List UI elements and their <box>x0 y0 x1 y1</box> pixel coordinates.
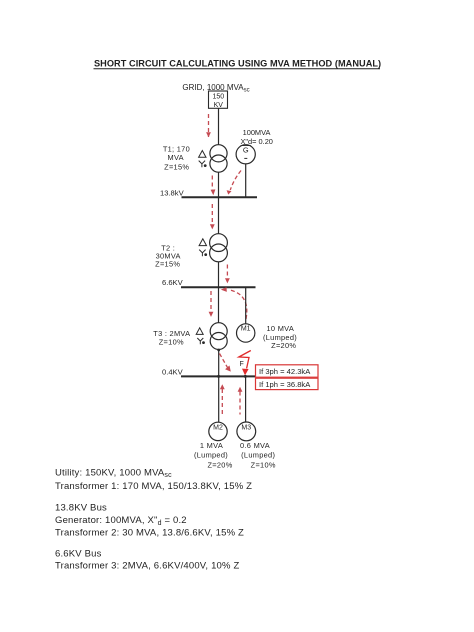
svg-text:6.6KV Bus: 6.6KV Bus <box>55 548 102 559</box>
T1 wye winding symbol <box>199 161 207 168</box>
svg-text:Z=10%: Z=10% <box>159 338 184 347</box>
T3 wye winding symbol <box>197 338 205 344</box>
fault result box If3ph <box>256 365 319 377</box>
svg-text:Z=15%: Z=15% <box>155 260 180 269</box>
svg-text:Transformer 3: 2MVA, 6.6KV/400: Transformer 3: 2MVA, 6.6KV/400V, 10% Z <box>55 561 239 572</box>
svg-text:13.8KV Bus: 13.8KV Bus <box>55 502 107 513</box>
T1 value label <box>163 144 190 171</box>
transformer T3 <box>210 323 227 350</box>
generator G <box>236 145 255 164</box>
T3 value label <box>153 329 190 347</box>
T2 delta winding symbol <box>199 239 206 246</box>
svg-text:Transformer 2: 30 MVA, 13.8/6.: Transformer 2: 30 MVA, 13.8/6.6KV, 15% Z <box>55 528 244 539</box>
svg-text:MVA: MVA <box>168 153 184 162</box>
junction fault node <box>244 375 247 378</box>
junction T3 bottom <box>217 349 220 352</box>
T3 delta winding symbol <box>196 328 203 335</box>
svg-text:13.8kV: 13.8kV <box>160 189 185 198</box>
svg-text:150: 150 <box>212 94 224 101</box>
wire 13.8kV bus to T2 <box>218 197 220 234</box>
bus 13.8kV <box>182 196 258 198</box>
svg-text:0.6 MVA: 0.6 MVA <box>240 441 270 450</box>
svg-text:GRID, 1000 MVAsc: GRID, 1000 MVAsc <box>182 83 249 94</box>
svg-text:0.4KV: 0.4KV <box>162 368 184 377</box>
flow arrow T3 to fault <box>220 354 231 372</box>
motor M3 <box>237 422 256 441</box>
svg-text:M1: M1 <box>241 325 251 332</box>
svg-text:1 MVA: 1 MVA <box>200 441 223 450</box>
flow arrow into T3 <box>209 291 214 317</box>
wire T2 to 6.6KV bus <box>218 262 220 288</box>
svg-text:If 1ph = 36.8kA: If 1ph = 36.8kA <box>259 380 311 389</box>
svg-text:SHORT CIRCUIT CALCULATING USIN: SHORT CIRCUIT CALCULATING USING MVA METH… <box>94 59 381 69</box>
svg-text:6.6KV: 6.6KV <box>162 278 184 287</box>
svg-text:M2: M2 <box>213 424 223 431</box>
flow arrow grid contribution (top) <box>206 114 211 137</box>
fault bolt F <box>239 351 251 376</box>
svg-text:Generator: 100MVA, X"d = 0.2: Generator: 100MVA, X"d = 0.2 <box>55 515 187 527</box>
T2 value label <box>155 243 181 268</box>
svg-text:Z=10%: Z=10% <box>251 460 276 469</box>
svg-text:G: G <box>243 146 249 155</box>
svg-text:Transformer 1: 170 MVA, 150/13: Transformer 1: 170 MVA, 150/13.8KV, 15% … <box>55 481 252 492</box>
generator label <box>241 128 273 146</box>
svg-text:T1; 170: T1; 170 <box>163 144 190 153</box>
title <box>94 59 382 69</box>
M1 value label <box>263 324 297 350</box>
T2 wye winding symbol <box>199 250 207 257</box>
flow arrow generator contribution <box>227 171 241 195</box>
svg-text:If 3ph = 42.3kA: If 3ph = 42.3kA <box>259 367 311 376</box>
motor M2 <box>209 422 227 440</box>
transformer T1 <box>210 145 227 173</box>
svg-text:M3: M3 <box>241 424 251 431</box>
wire 0.4KV bus to M3 <box>245 377 247 423</box>
svg-text:100MVA: 100MVA <box>243 128 271 137</box>
flow arrow T2 into 6.6KV bus <box>225 265 230 284</box>
T1 delta winding symbol <box>199 151 206 158</box>
svg-text:Z=15%: Z=15% <box>164 163 189 172</box>
svg-text:Utility: 150KV, 1000 MVAsc: Utility: 150KV, 1000 MVAsc <box>55 467 172 479</box>
svg-text:Z=20%: Z=20% <box>271 341 296 350</box>
M2 value label <box>194 441 233 469</box>
wire 0.4KV bus to M2 <box>218 377 220 423</box>
flow arrow into T2 <box>210 204 215 229</box>
svg-text:KV: KV <box>214 102 224 109</box>
flow arrow grid contribution into 13.8kV bus <box>211 176 216 196</box>
bus 6.6KV <box>181 286 256 288</box>
utility source GRID box 150KV <box>209 91 228 109</box>
notes text block <box>55 467 252 571</box>
svg-text:(Lumped): (Lumped) <box>241 451 275 460</box>
transformer T2 <box>210 234 228 262</box>
bus 0.4KV <box>181 375 256 377</box>
wire grid box to T1 <box>218 109 220 146</box>
wire generator to 13.8kV bus <box>245 164 247 197</box>
wire T1 to 13.8kV bus <box>218 172 220 197</box>
flow arrow M1 contribution into bus <box>221 287 247 319</box>
svg-text:F: F <box>240 361 244 368</box>
svg-text:Z=20%: Z=20% <box>207 460 232 469</box>
svg-text:(Lumped): (Lumped) <box>194 451 228 460</box>
junction M2 feeder node <box>217 375 220 378</box>
motor M1 <box>237 324 255 342</box>
flow arrow M2 contribution <box>220 384 225 415</box>
wire T3 to 0.4KV bus <box>218 350 220 377</box>
M3 value label <box>240 441 276 469</box>
fault result box If1ph <box>256 378 319 389</box>
wire M1 to 6.6KV bus <box>245 287 247 324</box>
flow arrow M3 contribution <box>238 387 243 415</box>
wire 6.6KV bus to T3 <box>218 287 220 323</box>
svg-text:10 MVA: 10 MVA <box>267 324 295 333</box>
